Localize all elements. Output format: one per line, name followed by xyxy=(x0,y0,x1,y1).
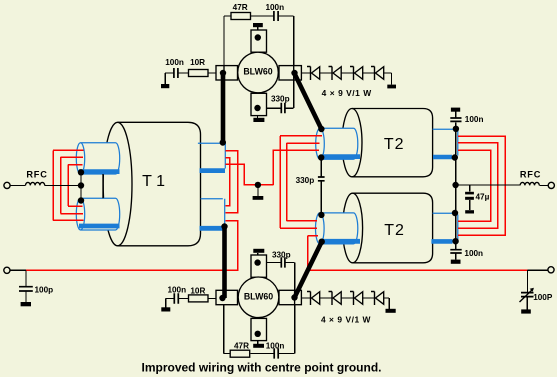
svg-text:100n: 100n xyxy=(266,342,285,351)
svg-text:100n: 100n xyxy=(265,3,284,12)
svg-text:RFC: RFC xyxy=(26,169,47,179)
svg-text:330p: 330p xyxy=(296,176,315,185)
svg-text:100n: 100n xyxy=(465,115,484,124)
svg-text:BLW60: BLW60 xyxy=(244,291,273,301)
svg-text:47R: 47R xyxy=(234,342,249,351)
svg-text:T2: T2 xyxy=(384,222,405,239)
svg-text:T 1: T 1 xyxy=(142,173,165,190)
svg-text:47R: 47R xyxy=(233,3,248,12)
svg-text:RFC: RFC xyxy=(520,169,541,179)
svg-text:100p: 100p xyxy=(35,285,54,294)
svg-text:100n: 100n xyxy=(464,249,483,258)
svg-text:4 × 9 V/1 W: 4 × 9 V/1 W xyxy=(321,315,371,325)
svg-text:BLW60: BLW60 xyxy=(243,66,272,76)
svg-text:100n: 100n xyxy=(167,285,186,294)
svg-text:10R: 10R xyxy=(190,286,205,295)
svg-text:47µ: 47µ xyxy=(476,192,490,201)
svg-text:Improved wiring with centre po: Improved wiring with centre point ground… xyxy=(142,361,382,375)
svg-text:4 × 9 V/1 W: 4 × 9 V/1 W xyxy=(322,88,372,98)
svg-text:330p: 330p xyxy=(271,95,290,104)
svg-text:100P: 100P xyxy=(533,293,553,302)
svg-text:330p: 330p xyxy=(272,250,291,259)
svg-text:100n: 100n xyxy=(165,58,184,67)
svg-text:10R: 10R xyxy=(190,58,205,67)
svg-text:T2: T2 xyxy=(384,136,405,153)
